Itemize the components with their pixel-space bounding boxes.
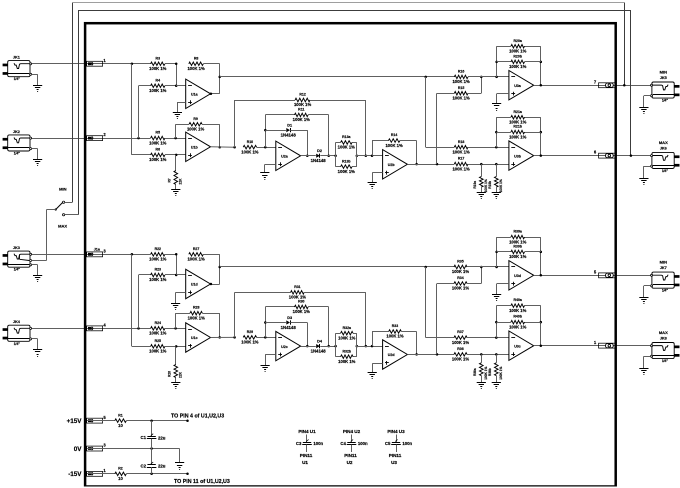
svg-text:1/4″: 1/4″	[662, 169, 669, 173]
svg-text:U1a: U1a	[191, 93, 199, 97]
svg-text:TO PIN 4 of U1,U2,U3: TO PIN 4 of U1,U2,U3	[171, 413, 224, 419]
svg-text:100n: 100n	[358, 441, 368, 446]
svg-text:D3: D3	[287, 316, 292, 320]
svg-text:R17: R17	[458, 157, 464, 161]
svg-text:R37: R37	[457, 330, 463, 334]
svg-text:22K: 22K	[179, 178, 183, 185]
svg-text:10: 10	[118, 423, 123, 428]
svg-text:PIN4 U2: PIN4 U2	[343, 429, 361, 434]
svg-text:100K 1%: 100K 1%	[338, 335, 356, 340]
svg-text:100K 1%: 100K 1%	[499, 179, 503, 192]
svg-text:R21b: R21b	[513, 125, 522, 129]
svg-text:100K 1%: 100K 1%	[509, 48, 527, 53]
svg-text:R25: R25	[155, 339, 161, 343]
svg-text:JK8: JK8	[660, 337, 667, 341]
svg-text:R14: R14	[391, 133, 397, 137]
svg-text:MAX: MAX	[659, 140, 668, 145]
svg-text:U3: U3	[391, 460, 397, 465]
svg-text:U2: U2	[347, 460, 353, 465]
svg-text:100K 1%: 100K 1%	[452, 166, 470, 171]
svg-text:R40b: R40b	[513, 315, 522, 319]
svg-text:PIN4 U3: PIN4 U3	[387, 429, 405, 434]
svg-text:R22: R22	[155, 247, 161, 251]
svg-text:D2: D2	[317, 149, 322, 153]
svg-text:R36: R36	[457, 347, 463, 351]
svg-text:100K 1%: 100K 1%	[452, 357, 470, 362]
svg-text:C3: C3	[296, 441, 302, 446]
svg-text:R15: R15	[458, 86, 464, 90]
svg-text:100K 1%: 100K 1%	[509, 324, 527, 329]
svg-text:MIN: MIN	[660, 260, 667, 265]
svg-text:100K 1%: 100K 1%	[452, 269, 470, 274]
svg-text:0V: 0V	[74, 446, 83, 453]
svg-text:R20a: R20a	[514, 39, 522, 43]
svg-text:100K 1%: 100K 1%	[149, 349, 167, 354]
svg-text:R26: R26	[168, 371, 172, 377]
svg-text:+15V: +15V	[67, 418, 83, 425]
svg-text:R10: R10	[247, 140, 253, 144]
svg-text:R24: R24	[155, 321, 161, 325]
svg-text:R19a: R19a	[473, 181, 477, 189]
svg-text:MAX: MAX	[58, 223, 67, 228]
svg-text:TO PIN 11 of U1,U2,U3: TO PIN 11 of U1,U2,U3	[174, 479, 230, 485]
svg-text:1/4″: 1/4″	[14, 152, 21, 156]
svg-text:R39a: R39a	[514, 230, 522, 234]
svg-text:U2c: U2c	[281, 345, 288, 349]
svg-text:U1c: U1c	[191, 336, 198, 340]
svg-text:R32b: R32b	[343, 349, 352, 353]
svg-text:100K 1%: 100K 1%	[499, 366, 503, 379]
svg-text:100K 1%: 100K 1%	[452, 286, 470, 291]
svg-text:MIN: MIN	[59, 186, 66, 191]
svg-text:R38a: R38a	[473, 368, 477, 376]
svg-text:R33: R33	[392, 324, 398, 328]
svg-text:R16: R16	[458, 70, 464, 74]
svg-text:R13a: R13a	[342, 135, 350, 139]
svg-text:100K 1%: 100K 1%	[188, 315, 206, 320]
svg-text:100K 1%: 100K 1%	[149, 277, 167, 282]
svg-text:1N4148: 1N4148	[311, 348, 327, 353]
svg-text:JK6: JK6	[660, 147, 667, 151]
svg-text:100K 1%: 100K 1%	[187, 257, 205, 262]
svg-text:JK1: JK1	[13, 56, 20, 60]
svg-text:R32a: R32a	[343, 326, 351, 330]
svg-text:100K 1%: 100K 1%	[149, 331, 167, 336]
svg-text:JK7: JK7	[660, 266, 667, 270]
svg-text:U2b: U2b	[388, 163, 396, 167]
svg-text:JK4: JK4	[13, 320, 21, 324]
svg-text:100K 1%: 100K 1%	[187, 126, 205, 131]
svg-text:U3d: U3d	[514, 274, 521, 278]
svg-text:100K 1%: 100K 1%	[149, 66, 167, 71]
svg-text:100K 1%: 100K 1%	[452, 79, 470, 84]
svg-text:100K 1%: 100K 1%	[241, 149, 259, 154]
svg-text:R19b: R19b	[488, 181, 492, 189]
svg-text:100K 1%: 100K 1%	[241, 340, 259, 345]
svg-text:R18: R18	[458, 140, 464, 144]
svg-text:1/4″: 1/4″	[14, 342, 21, 346]
svg-text:100K 1%: 100K 1%	[509, 134, 527, 139]
svg-text:100K 1%: 100K 1%	[187, 66, 205, 71]
svg-text:R35: R35	[457, 260, 463, 264]
svg-text:100n: 100n	[313, 441, 323, 446]
svg-text:U1d: U1d	[191, 283, 198, 287]
svg-text:100K 1%: 100K 1%	[149, 257, 167, 262]
svg-text:1/4″: 1/4″	[662, 359, 669, 363]
svg-text:JK5: JK5	[660, 76, 667, 80]
svg-text:1/4″: 1/4″	[14, 268, 21, 272]
svg-text:U3c: U3c	[514, 344, 521, 348]
svg-text:R11: R11	[298, 108, 304, 112]
svg-text:R38b: R38b	[488, 368, 492, 376]
svg-text:1N4148: 1N4148	[281, 325, 297, 330]
svg-text:22u: 22u	[158, 435, 166, 440]
svg-text:C1: C1	[141, 435, 147, 440]
svg-text:R23: R23	[155, 268, 161, 272]
svg-text:100K 1%: 100K 1%	[338, 169, 356, 174]
svg-text:100K 1%: 100K 1%	[509, 254, 527, 259]
svg-text:U3b: U3b	[514, 154, 522, 158]
svg-text:PIN11: PIN11	[300, 453, 313, 458]
svg-text:JK2: JK2	[13, 130, 20, 134]
svg-text:100K 1%: 100K 1%	[509, 119, 527, 124]
svg-text:R6: R6	[156, 148, 161, 152]
svg-text:MIN: MIN	[660, 70, 667, 75]
svg-text:U2d: U2d	[388, 353, 395, 357]
svg-text:R3: R3	[156, 56, 161, 60]
svg-text:100K 1%: 100K 1%	[452, 96, 470, 101]
svg-text:100K 1%: 100K 1%	[452, 340, 470, 345]
svg-text:R1: R1	[118, 413, 123, 417]
svg-text:R31: R31	[294, 285, 300, 289]
svg-text:22u: 22u	[158, 464, 166, 469]
svg-text:U3a: U3a	[514, 84, 522, 88]
svg-text:U2a: U2a	[281, 155, 289, 159]
svg-text:C5: C5	[385, 441, 391, 446]
svg-text:R30: R30	[298, 300, 304, 304]
svg-text:C2: C2	[141, 463, 147, 468]
svg-text:PIN11: PIN11	[389, 453, 402, 458]
svg-text:100K 1%: 100K 1%	[293, 309, 311, 314]
svg-text:R5: R5	[156, 131, 161, 135]
svg-text:PIN11: PIN11	[344, 453, 357, 458]
svg-text:100K 1%: 100K 1%	[385, 143, 403, 148]
svg-text:100K 1%: 100K 1%	[149, 88, 167, 93]
svg-text:R29: R29	[247, 330, 253, 334]
svg-text:R7: R7	[168, 178, 172, 182]
svg-text:100K 1%: 100K 1%	[509, 64, 527, 69]
svg-text:R8: R8	[194, 56, 199, 60]
svg-text:R21a: R21a	[514, 110, 522, 114]
svg-text:10: 10	[118, 476, 123, 481]
svg-text:100K 1%: 100K 1%	[452, 149, 470, 154]
svg-text:R2: R2	[118, 466, 123, 470]
svg-text:100K 1%: 100K 1%	[338, 359, 356, 364]
svg-text:R28: R28	[193, 306, 199, 310]
svg-text:1N4148: 1N4148	[281, 132, 297, 137]
svg-text:100K 1%: 100K 1%	[294, 102, 312, 107]
svg-text:1/4″: 1/4″	[662, 99, 669, 103]
svg-text:D1: D1	[287, 124, 292, 128]
svg-text:C4: C4	[340, 441, 346, 446]
svg-text:R20b: R20b	[513, 55, 522, 59]
svg-text:R34: R34	[457, 276, 463, 280]
svg-text:PIN4 U1: PIN4 U1	[298, 429, 316, 434]
svg-text:R4: R4	[156, 78, 161, 82]
svg-text:1/4″: 1/4″	[662, 289, 669, 293]
svg-text:100K 1%: 100K 1%	[386, 334, 404, 339]
svg-text:R9: R9	[193, 117, 198, 121]
svg-text:22K: 22K	[179, 371, 183, 378]
svg-text:R12: R12	[299, 93, 305, 97]
svg-text:-15V: -15V	[68, 471, 82, 478]
svg-text:J1a: J1a	[94, 248, 101, 252]
svg-text:100K 1%: 100K 1%	[149, 140, 167, 145]
svg-text:100K 1%: 100K 1%	[293, 117, 311, 122]
svg-text:R40a: R40a	[514, 298, 522, 302]
svg-text:100K 1%: 100K 1%	[149, 157, 167, 162]
svg-text:U1b: U1b	[191, 146, 199, 150]
svg-text:R13b: R13b	[342, 159, 351, 163]
svg-text:U1: U1	[302, 460, 308, 465]
svg-text:MAX: MAX	[659, 330, 668, 335]
svg-text:R39b: R39b	[513, 245, 522, 249]
svg-text:1N4148: 1N4148	[311, 158, 327, 163]
svg-text:JK3: JK3	[13, 246, 20, 250]
svg-text:100K 1%: 100K 1%	[338, 145, 356, 150]
svg-text:100n: 100n	[402, 441, 412, 446]
svg-text:100K 1%: 100K 1%	[509, 308, 527, 313]
svg-text:1/4″: 1/4″	[14, 77, 21, 81]
svg-text:R27: R27	[193, 247, 199, 251]
